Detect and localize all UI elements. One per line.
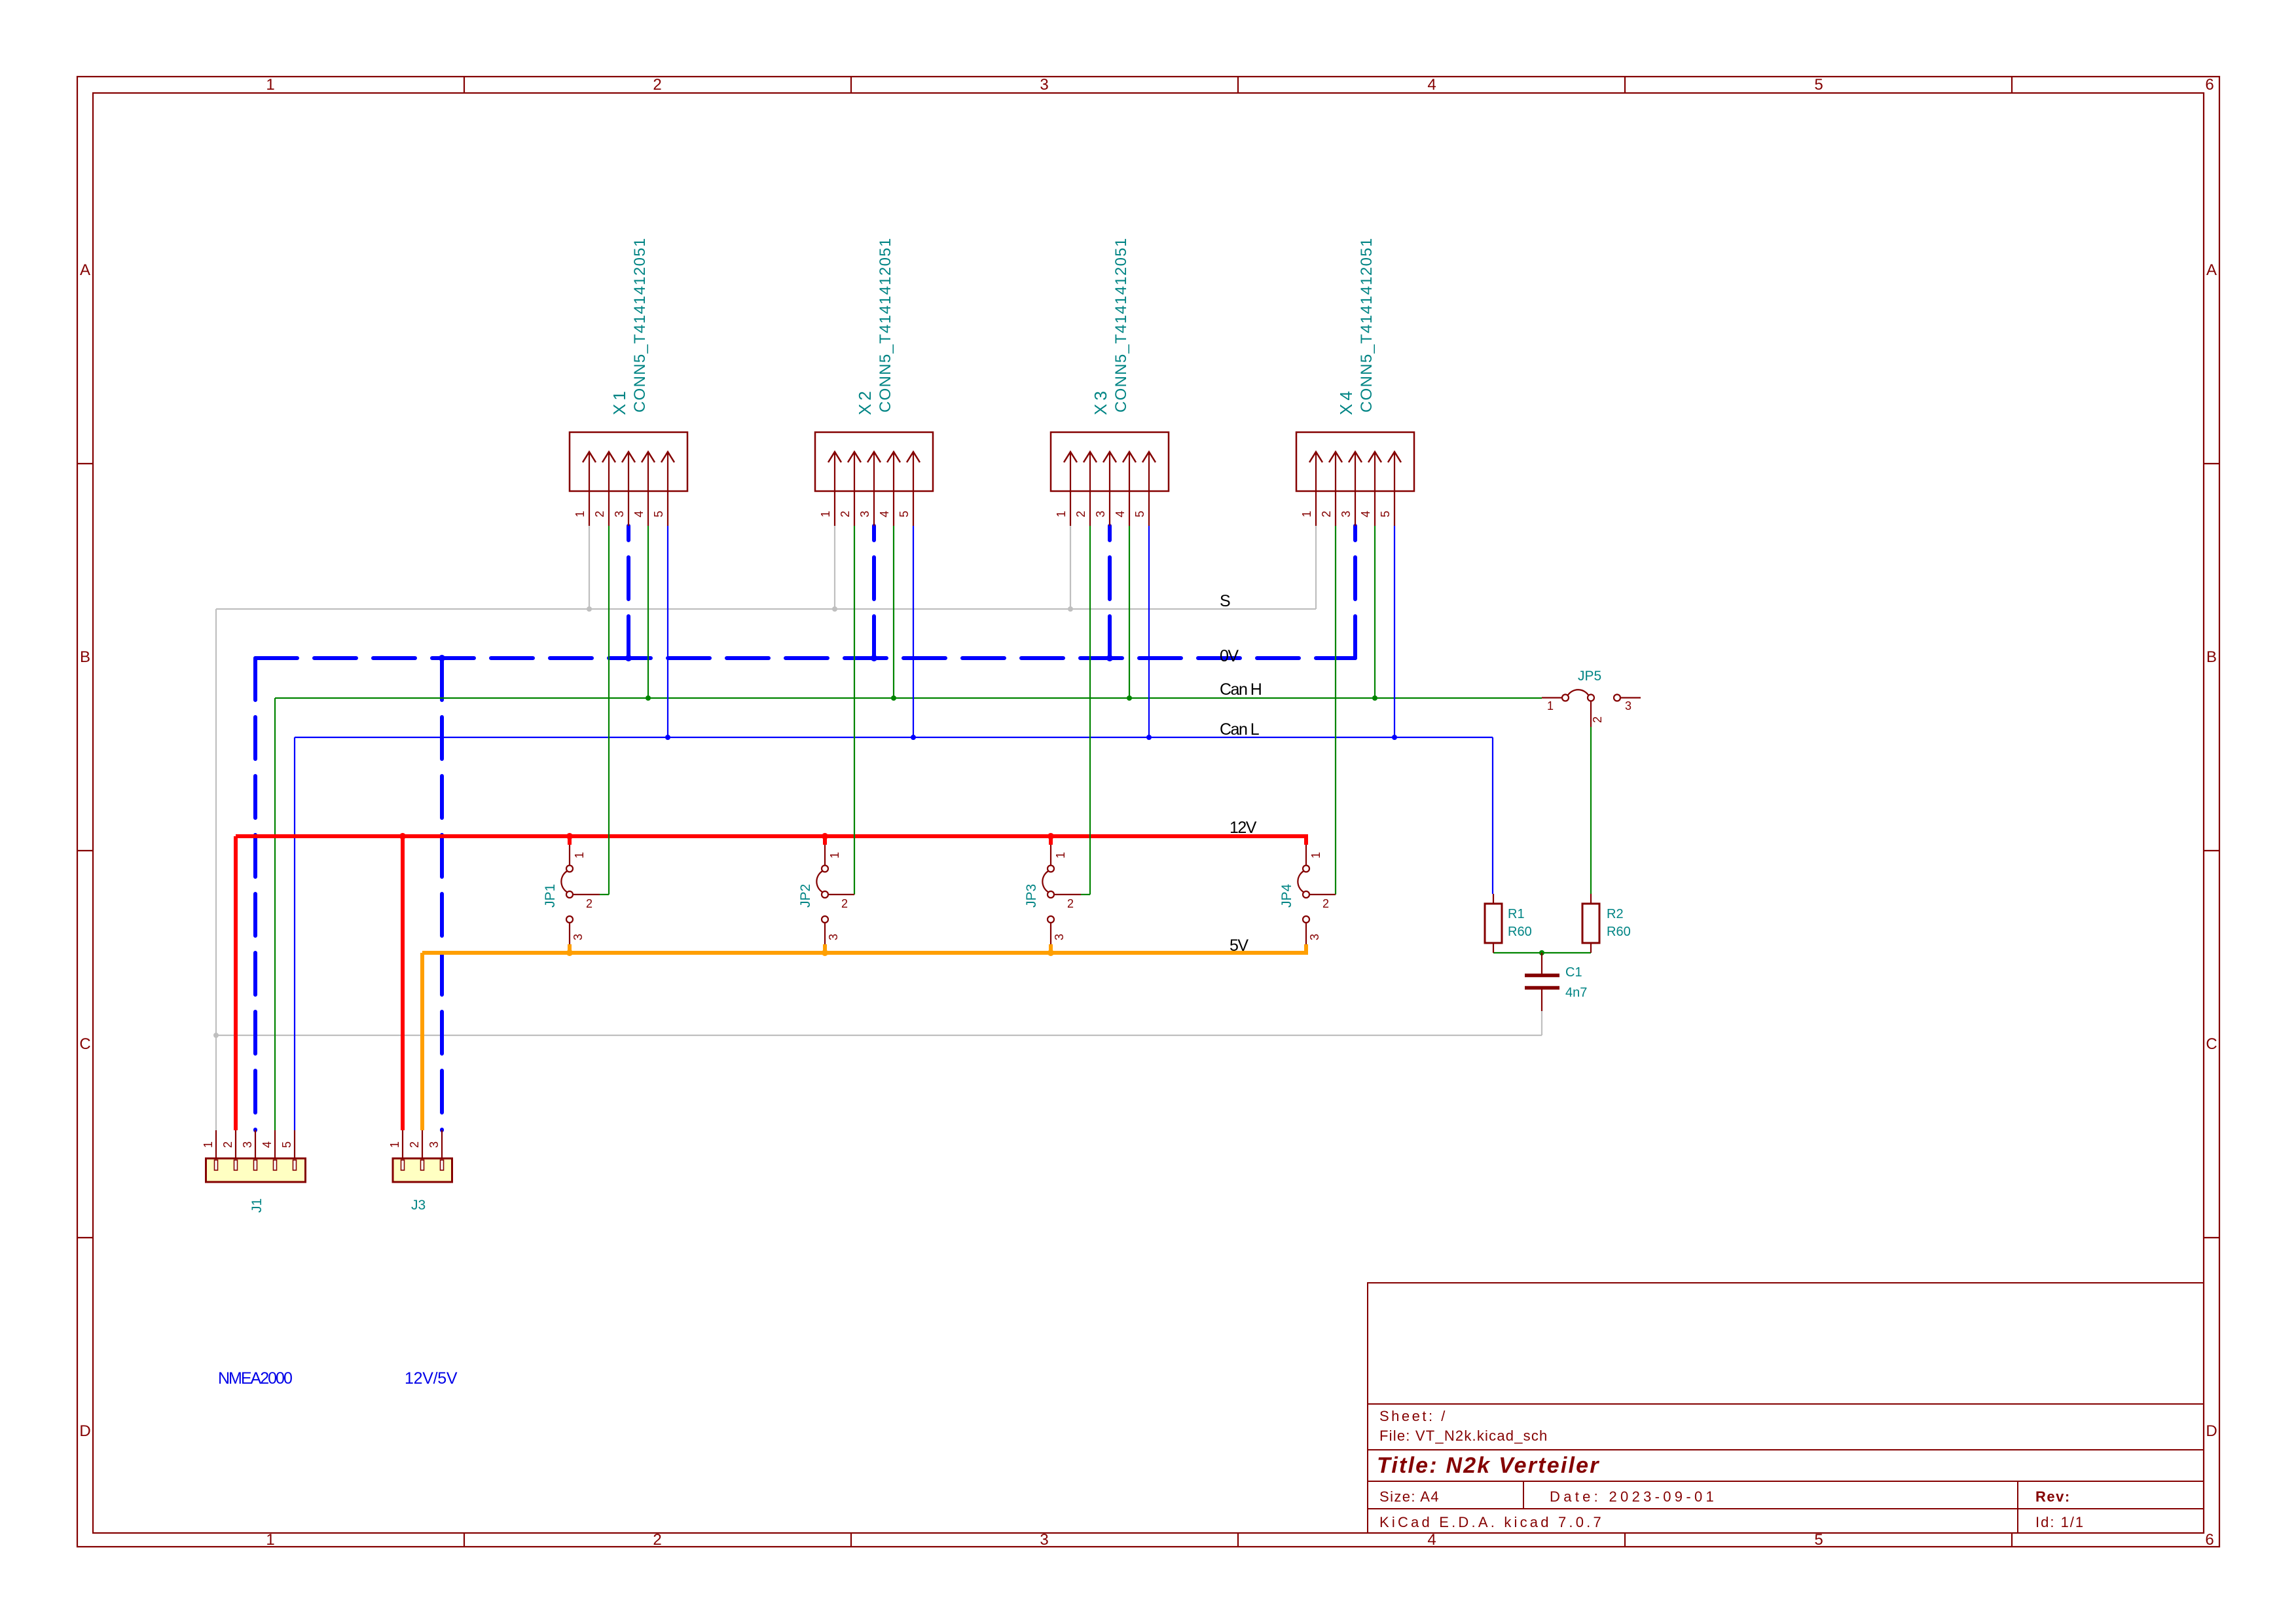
jumper JP1 <box>561 845 609 944</box>
wire 12V J3 pin1 vertical <box>401 836 405 1130</box>
svg-text:CONN5_T4141412051: CONN5_T4141412051 <box>631 237 649 413</box>
svg-text:R60: R60 <box>1607 925 1631 939</box>
svg-text:12V/5V: 12V/5V <box>405 1369 458 1388</box>
svg-text:2: 2 <box>586 897 592 910</box>
svg-text:1: 1 <box>828 852 841 858</box>
svg-text:File: VT_N2k.kicad_sch: File: VT_N2k.kicad_sch <box>1379 1428 1548 1444</box>
wire 5V bus horizontal <box>422 951 1306 955</box>
svg-text:2: 2 <box>653 76 661 94</box>
svg-text:5: 5 <box>652 511 665 517</box>
connector X1 <box>570 432 687 526</box>
node Can L junction X4 <box>1392 735 1397 740</box>
wire 5V stub to JP4 pin3 <box>1304 944 1308 955</box>
X1 pin numbers <box>574 511 665 517</box>
svg-text:1: 1 <box>1309 852 1322 858</box>
svg-text:Rev:: Rev: <box>2035 1488 2071 1505</box>
jumper JP3 <box>1042 845 1090 944</box>
wire X4 pin2 down to JP4 <box>1335 526 1336 895</box>
svg-text:D: D <box>79 1422 90 1440</box>
title block frame <box>1368 1283 2204 1533</box>
wire Can H left vertical to J1 pin4 <box>274 698 276 1130</box>
wire 5V stub to JP2 pin3 <box>823 944 827 955</box>
svg-text:R1: R1 <box>1508 907 1525 921</box>
node S junction X1 <box>587 606 592 612</box>
svg-text:6: 6 <box>2205 76 2214 94</box>
svg-text:5: 5 <box>1814 76 1823 94</box>
svg-text:5: 5 <box>280 1141 293 1148</box>
svg-text:Sheet: /: Sheet: / <box>1379 1408 1448 1424</box>
border row ticks <box>77 464 2219 1238</box>
svg-text:12V: 12V <box>1230 819 1257 837</box>
capacitor C1 <box>1525 953 1559 1011</box>
svg-text:1: 1 <box>1547 699 1554 712</box>
svg-text:X2: X2 <box>855 388 875 415</box>
svg-text:1: 1 <box>1300 511 1313 517</box>
svg-text:3: 3 <box>1040 1531 1048 1549</box>
border column numbers top <box>266 76 2214 94</box>
svg-text:D: D <box>2206 1422 2217 1440</box>
J1 pin numbers <box>202 1141 293 1148</box>
wire Can L to X3 pin5 <box>1148 526 1150 737</box>
svg-text:Can H: Can H <box>1220 680 1262 699</box>
svg-text:2: 2 <box>839 511 852 517</box>
wire Can L to X1 pin5 <box>667 526 668 737</box>
svg-text:CONN5_T4141412051: CONN5_T4141412051 <box>1112 237 1130 413</box>
wire Can L to X4 pin5 <box>1394 526 1395 737</box>
node Can L junction X3 <box>1146 735 1152 740</box>
connector X3 <box>1051 432 1169 526</box>
node S junction X3 <box>1068 606 1073 612</box>
svg-text:A: A <box>80 261 90 279</box>
wire X1 pin2 down to JP1 <box>608 526 610 895</box>
svg-text:1: 1 <box>819 511 832 517</box>
svg-text:5: 5 <box>1133 511 1146 517</box>
svg-text:2: 2 <box>1067 897 1074 910</box>
svg-text:4: 4 <box>1427 76 1436 94</box>
node S junction return <box>213 1033 219 1038</box>
svg-text:JP4: JP4 <box>1279 883 1294 908</box>
wire X2 pin2 down to JP2 <box>854 526 855 895</box>
node Can L junction X1 <box>665 735 670 740</box>
wire 0V left vertical to J1 pin3 <box>253 658 257 1130</box>
svg-text:3: 3 <box>1625 699 1631 712</box>
wire 5V stub to JP3 pin3 <box>1049 944 1053 955</box>
wire S to X3 pin1 <box>1070 526 1071 609</box>
svg-text:3: 3 <box>613 511 626 517</box>
svg-text:3: 3 <box>1094 511 1107 517</box>
svg-text:C: C <box>79 1035 90 1053</box>
wire X3 pin2 down to JP3 <box>1089 526 1091 895</box>
svg-text:JP5: JP5 <box>1578 669 1601 684</box>
svg-text:X3: X3 <box>1091 388 1110 415</box>
border row letters right <box>2206 261 2217 1440</box>
wire 0V to X3 pin3 <box>1108 526 1112 658</box>
wire 12V left vertical to J1 pin2 <box>234 836 238 1130</box>
node Can H junction X1 <box>646 695 651 701</box>
connector J1 <box>206 1130 306 1182</box>
svg-text:S: S <box>1220 592 1230 610</box>
wire 12V stub to JP4 pin1 <box>1304 834 1308 845</box>
svg-text:4n7: 4n7 <box>1565 986 1587 1000</box>
svg-text:1: 1 <box>1054 852 1067 858</box>
wire 0V to X4 pin3 <box>1353 526 1357 658</box>
wire Can H to X4 pin4 <box>1374 526 1376 698</box>
node Can H junction X3 <box>1127 695 1132 701</box>
wire Can H bus horizontal <box>275 697 1542 699</box>
wire S to X2 pin1 <box>834 526 835 609</box>
svg-text:3: 3 <box>1308 934 1321 940</box>
svg-text:NMEA2000: NMEA2000 <box>218 1369 292 1388</box>
svg-text:B: B <box>80 648 90 666</box>
node 5V junction JP1 <box>566 950 573 956</box>
svg-text:3: 3 <box>241 1141 254 1148</box>
node 0V junction X2 <box>871 655 877 661</box>
svg-text:1: 1 <box>266 1531 274 1549</box>
svg-text:2: 2 <box>1322 897 1329 910</box>
wire Can H to X3 pin4 <box>1129 526 1130 698</box>
svg-text:5: 5 <box>898 511 911 517</box>
jumper JP5 <box>1542 690 1641 727</box>
svg-text:J3: J3 <box>411 1198 426 1213</box>
wire 12V bus horizontal <box>236 834 1306 838</box>
svg-text:2: 2 <box>1320 511 1333 517</box>
connector J3 <box>393 1130 452 1182</box>
svg-text:R60: R60 <box>1508 925 1532 939</box>
svg-text:1: 1 <box>573 852 586 858</box>
svg-text:4: 4 <box>1114 511 1127 517</box>
node 0V junction J3 <box>439 655 445 661</box>
svg-text:Can L: Can L <box>1220 720 1260 739</box>
svg-text:3: 3 <box>827 934 840 940</box>
wire Can H to X1 pin4 <box>647 526 649 698</box>
svg-text:4: 4 <box>878 511 891 517</box>
svg-text:C: C <box>2206 1035 2217 1053</box>
svg-text:6: 6 <box>2205 1531 2214 1549</box>
JP5 pin numbers <box>1547 699 1631 723</box>
X2 pin numbers <box>819 511 911 517</box>
node 5V junction JP2 <box>822 950 828 956</box>
svg-text:3: 3 <box>1339 511 1353 517</box>
svg-text:1: 1 <box>388 1141 401 1148</box>
connector X2 <box>815 432 933 526</box>
wire R1 R2 bottom horizontal <box>1493 952 1591 953</box>
wire 12V stub to JP2 pin1 <box>823 834 827 845</box>
X3 pin numbers <box>1055 511 1146 517</box>
wire 12V stub to JP3 pin1 <box>1049 834 1053 845</box>
svg-text:Date: 2023-09-01: Date: 2023-09-01 <box>1550 1488 1717 1505</box>
connector X4 <box>1296 432 1414 526</box>
svg-text:2: 2 <box>593 511 606 517</box>
svg-text:5V: 5V <box>1230 936 1248 955</box>
svg-text:KiCad E.D.A. kicad 7.0.7: KiCad E.D.A. kicad 7.0.7 <box>1379 1514 1604 1530</box>
wire S return to C1 <box>1541 1011 1542 1035</box>
JP1 pin numbers <box>572 852 592 940</box>
wire Can L to R1 vertical <box>1492 737 1493 894</box>
svg-text:5: 5 <box>1814 1531 1823 1549</box>
wire JP5 pin2 to R2 <box>1590 727 1592 894</box>
JP3 pin numbers <box>1053 852 1074 940</box>
svg-text:3: 3 <box>858 511 871 517</box>
svg-text:4: 4 <box>1427 1531 1436 1549</box>
wire 0V to X1 pin3 <box>627 526 630 658</box>
svg-text:CONN5_T4141412051: CONN5_T4141412051 <box>877 237 894 413</box>
node 12V junction J3 <box>399 833 406 840</box>
J3 pin numbers <box>388 1141 441 1148</box>
node Can H junction X2 <box>891 695 896 701</box>
svg-text:2: 2 <box>408 1141 421 1148</box>
node S junction X2 <box>832 606 837 612</box>
node 5V junction JP3 <box>1048 950 1054 956</box>
svg-text:J1: J1 <box>249 1198 264 1213</box>
svg-text:3: 3 <box>572 934 585 940</box>
svg-text:B: B <box>2206 648 2217 666</box>
svg-text:X4: X4 <box>1336 388 1356 415</box>
node 12V junction JP1 <box>566 833 573 840</box>
wire S bus horizontal <box>216 608 1316 610</box>
X4 pin numbers <box>1300 511 1392 517</box>
node 12V junction JP2 <box>822 833 828 840</box>
border column ticks <box>464 77 2012 1547</box>
svg-text:A: A <box>2206 261 2217 279</box>
svg-text:2: 2 <box>1591 716 1604 723</box>
svg-text:1: 1 <box>202 1141 215 1148</box>
svg-text:2: 2 <box>221 1141 234 1148</box>
node 12V junction JP3 <box>1048 833 1054 840</box>
border row letters left <box>79 261 90 1440</box>
wire 0V to X2 pin3 <box>872 526 876 658</box>
svg-text:2: 2 <box>1074 511 1087 517</box>
svg-text:CONN5_T4141412051: CONN5_T4141412051 <box>1358 237 1376 413</box>
svg-text:Size: A4: Size: A4 <box>1379 1488 1440 1505</box>
svg-text:4: 4 <box>632 511 646 517</box>
svg-text:3: 3 <box>428 1141 441 1148</box>
node Can H junction X4 <box>1372 695 1377 701</box>
node 0V junction X1 <box>625 655 632 661</box>
JP2 pin numbers <box>827 852 848 940</box>
wire 5V left vertical to J3 pin2 <box>420 953 424 1130</box>
wire Can L bus horizontal <box>295 737 1493 738</box>
resistor R2 <box>1582 894 1599 953</box>
wire 0V bus horizontal <box>255 656 1355 660</box>
svg-text:1: 1 <box>1055 511 1068 517</box>
svg-text:Id: 1/1: Id: 1/1 <box>2035 1514 2085 1530</box>
svg-text:4: 4 <box>261 1141 274 1148</box>
wire 5V stub to JP1 pin3 <box>568 944 572 955</box>
wire Can H to X2 pin4 <box>893 526 894 698</box>
JP4 pin numbers <box>1308 852 1329 940</box>
border column numbers bottom <box>266 1531 2214 1549</box>
wire S return horizontal <box>216 1035 1542 1036</box>
svg-text:C1: C1 <box>1565 965 1582 980</box>
svg-text:JP1: JP1 <box>543 884 558 908</box>
svg-text:1: 1 <box>574 511 587 517</box>
node 0V junction X3 <box>1106 655 1113 661</box>
svg-text:0V: 0V <box>1220 647 1239 665</box>
svg-text:3: 3 <box>1040 76 1048 94</box>
svg-text:R2: R2 <box>1607 907 1624 921</box>
svg-text:JP2: JP2 <box>798 884 813 908</box>
svg-text:5: 5 <box>1379 511 1392 517</box>
wire 12V stub to JP1 pin1 <box>568 834 572 845</box>
svg-text:2: 2 <box>653 1531 661 1549</box>
wire Can L to X2 pin5 <box>913 526 914 737</box>
wire S to X4 pin1 <box>1315 526 1317 609</box>
wire S left vertical to J1 pin1 <box>215 609 217 1130</box>
svg-text:3: 3 <box>1053 934 1066 940</box>
wire 0V J3 pin3 vertical <box>440 658 444 1130</box>
svg-text:2: 2 <box>841 897 848 910</box>
wire S to X1 pin1 <box>589 526 590 609</box>
resistor R1 <box>1485 894 1502 953</box>
node R bottom junction C1 <box>1539 950 1544 955</box>
svg-text:1: 1 <box>266 76 274 94</box>
jumper JP2 <box>816 845 854 944</box>
svg-text:X1: X1 <box>610 388 629 415</box>
svg-text:Title: N2k Verteiler: Title: N2k Verteiler <box>1377 1453 1600 1478</box>
wire Can L left vertical to J1 pin5 <box>294 737 295 1130</box>
node Can L junction X2 <box>911 735 916 740</box>
svg-text:4: 4 <box>1359 511 1372 517</box>
svg-text:JP3: JP3 <box>1024 884 1039 908</box>
jumper JP4 <box>1298 845 1336 944</box>
